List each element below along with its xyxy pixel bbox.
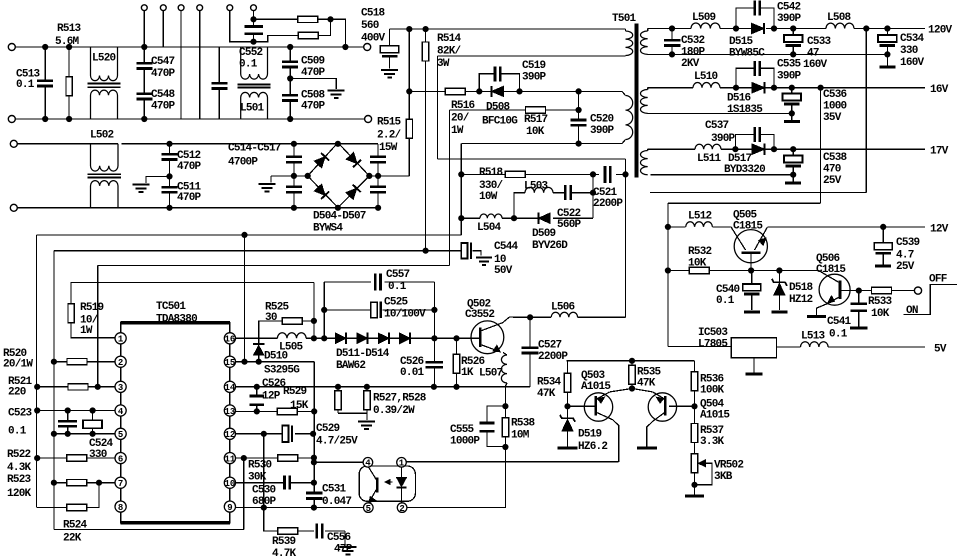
inductor L511 bbox=[695, 144, 721, 149]
svg-text:47: 47 bbox=[807, 48, 819, 60]
svg-text:C531: C531 bbox=[322, 484, 347, 496]
svg-text:D519: D519 bbox=[578, 429, 602, 441]
wire from pin B down bbox=[162, 11, 164, 47]
resistor R530 bbox=[278, 455, 298, 461]
svg-text:13: 13 bbox=[224, 407, 235, 417]
resistor R521 bbox=[68, 384, 88, 390]
svg-text:D516: D516 bbox=[727, 93, 751, 105]
junction dots bridge bbox=[291, 141, 380, 210]
label R521 220 bbox=[8, 376, 33, 399]
svg-text:0.39/2W: 0.39/2W bbox=[373, 405, 415, 417]
svg-text:C3552: C3552 bbox=[465, 309, 494, 321]
inductor L504 bbox=[480, 214, 502, 218]
terminal connector pin C bbox=[178, 5, 184, 11]
optocoupler internal LED bbox=[385, 467, 406, 503]
label C518 560 400V bbox=[361, 8, 386, 45]
label L513 bbox=[801, 331, 826, 343]
resistor R527 bbox=[335, 387, 341, 413]
svg-text:HZ12: HZ12 bbox=[789, 294, 813, 306]
IC pin 6 bbox=[115, 453, 126, 464]
IC pin 16 bbox=[224, 333, 235, 344]
svg-text:0.047: 0.047 bbox=[322, 496, 351, 508]
transformer T501 secondary 16V bbox=[641, 88, 648, 114]
wire collector riser x625.5 bbox=[625, 159, 627, 317]
svg-text:HZ6.2: HZ6.2 bbox=[578, 441, 607, 453]
wire L503 branch bbox=[514, 193, 593, 219]
svg-text:11: 11 bbox=[224, 455, 235, 465]
capacitor C556 bbox=[316, 523, 319, 538]
wire bus y234.9 bbox=[36, 235, 461, 508]
capacitor C520 bbox=[571, 91, 587, 143]
svg-text:C538: C538 bbox=[823, 152, 848, 164]
svg-text:R514: R514 bbox=[437, 33, 462, 45]
junction dots rail91 bbox=[407, 89, 582, 94]
wire from pin D down bbox=[199, 11, 201, 119]
resistor R515 bbox=[406, 29, 412, 176]
svg-text:8: 8 bbox=[118, 503, 123, 513]
resistor R538 bbox=[502, 406, 508, 447]
IC pin 7 bbox=[115, 477, 126, 488]
wire pin4 line bbox=[37, 410, 115, 412]
label C519 390P bbox=[522, 60, 547, 84]
wire pin4 to x314 bbox=[314, 461, 363, 463]
label D518 HZ12 bbox=[789, 282, 814, 306]
svg-text:5: 5 bbox=[366, 504, 371, 514]
svg-text:4.3K: 4.3K bbox=[7, 462, 32, 474]
svg-text:390P: 390P bbox=[590, 125, 615, 137]
label L509 bbox=[692, 12, 716, 24]
svg-text:OFF: OFF bbox=[929, 274, 947, 286]
label R532 10K bbox=[688, 246, 712, 270]
transformer T501 core bbox=[635, 24, 638, 177]
label C548 470P bbox=[151, 89, 176, 113]
wire from pin C down bbox=[180, 11, 182, 119]
wire from pin A down bbox=[143, 11, 145, 47]
label C523 0.1 bbox=[8, 408, 33, 438]
svg-text:4.7: 4.7 bbox=[896, 250, 914, 262]
ground under Q504 bbox=[637, 447, 657, 450]
inductor L520 bbox=[87, 47, 120, 119]
wire 12V rail bbox=[768, 226, 926, 228]
wire 17V return y174.7 bbox=[651, 174, 794, 176]
diode D505 (bridge top-right) bbox=[346, 153, 357, 164]
terminal connector pin D bbox=[197, 5, 203, 11]
svg-text:17V: 17V bbox=[930, 146, 949, 158]
terminal standby switch bbox=[914, 287, 921, 294]
capacitor C516/C517 (right pair) bbox=[370, 144, 386, 208]
wire 16V return y113.4 bbox=[648, 112, 792, 114]
junction dot pin4 wire bbox=[311, 460, 316, 465]
diode D512 bbox=[357, 333, 368, 343]
capacitor C527 bbox=[522, 317, 539, 387]
svg-text:C518: C518 bbox=[361, 8, 386, 20]
label D519 HZ6.2 bbox=[578, 429, 607, 454]
label D517 BYD3320 bbox=[724, 153, 765, 176]
label R525 30 bbox=[265, 302, 290, 325]
capacitor C540 bbox=[743, 271, 761, 312]
resistor R534 bbox=[564, 361, 570, 407]
svg-text:C555: C555 bbox=[450, 424, 475, 436]
wire y192.6 rail bbox=[650, 192, 866, 194]
capacitor C541 bbox=[850, 291, 868, 328]
svg-text:C524: C524 bbox=[89, 438, 114, 450]
capacitor C537 bbox=[735, 127, 774, 149]
label L512 bbox=[688, 211, 712, 223]
wire 16V rail bbox=[648, 87, 925, 89]
terminal AC line input 1 bbox=[8, 44, 15, 51]
svg-text:C539: C539 bbox=[896, 237, 920, 249]
svg-text:1000P: 1000P bbox=[450, 436, 480, 448]
wire R519 top riser x313.9 bbox=[313, 282, 315, 338]
svg-text:12V: 12V bbox=[930, 224, 949, 236]
junction dots C520 bbox=[576, 107, 581, 146]
IC pin 5 bbox=[115, 428, 126, 439]
diode D513 bbox=[378, 333, 389, 343]
svg-text:L509: L509 bbox=[692, 12, 716, 24]
IC pin 8 bbox=[115, 501, 126, 512]
label R529 15K bbox=[283, 386, 309, 412]
diode D504 (bridge top-left) bbox=[314, 157, 325, 168]
IC pin 12 bbox=[224, 428, 235, 439]
svg-text:35V: 35V bbox=[823, 112, 842, 124]
label R538 10M bbox=[511, 418, 536, 442]
svg-text:2200P: 2200P bbox=[593, 198, 623, 210]
svg-text:D515: D515 bbox=[729, 36, 754, 48]
capacitor C529 bbox=[282, 426, 288, 443]
IC pin 14 bbox=[224, 381, 235, 392]
svg-text:BAW62: BAW62 bbox=[336, 360, 365, 372]
svg-text:L507: L507 bbox=[479, 368, 503, 380]
wire pin3 line bbox=[37, 386, 115, 388]
svg-text:C1815: C1815 bbox=[733, 221, 763, 233]
diode D514 bbox=[400, 333, 411, 343]
diode D510 bbox=[253, 338, 264, 361]
IC503 L7805 body bbox=[731, 338, 776, 358]
terminal connector pin A bbox=[141, 5, 147, 11]
svg-text:470P: 470P bbox=[177, 192, 202, 204]
capacitor C513 bbox=[37, 47, 53, 119]
label C540 0.1 bbox=[716, 284, 740, 307]
label 12V bbox=[930, 224, 949, 236]
resistor R523 bbox=[67, 480, 87, 486]
label R514 82K/3W bbox=[437, 33, 462, 70]
svg-text:D518: D518 bbox=[789, 282, 814, 294]
label R537 3.3K bbox=[700, 425, 725, 448]
label L511 bbox=[697, 153, 722, 165]
label 120V bbox=[928, 25, 953, 37]
wire lower AC top rail bbox=[17, 144, 118, 164]
junction dots mid column bbox=[241, 431, 316, 510]
wire 120V return y54.4 bbox=[648, 53, 888, 55]
junction dots R538 bbox=[503, 404, 508, 450]
wire snubber rail y158.9 bbox=[438, 158, 626, 160]
ground near bridge bbox=[259, 183, 276, 185]
ground under VR502 bbox=[685, 495, 704, 498]
capacitor C531 bbox=[306, 488, 322, 508]
junction dots clamp bbox=[459, 172, 628, 221]
svg-text:160V: 160V bbox=[900, 57, 925, 69]
label R536 100K bbox=[700, 374, 725, 397]
svg-text:L511: L511 bbox=[697, 153, 722, 165]
label L503 bbox=[524, 181, 549, 193]
capacitor C511 bbox=[162, 176, 178, 207]
svg-text:470P: 470P bbox=[301, 67, 326, 79]
svg-text:C557: C557 bbox=[386, 269, 410, 281]
terminal DC link 1 bbox=[364, 44, 371, 51]
svg-text:R532: R532 bbox=[688, 246, 712, 258]
optocoupler internal phototransistor bbox=[369, 467, 378, 503]
inductor L502 bbox=[87, 144, 121, 208]
resistor R513 bbox=[66, 47, 72, 119]
label R515 2.2/15W bbox=[377, 117, 402, 155]
label C512 470P bbox=[177, 150, 202, 173]
label D509 BYV26D bbox=[532, 228, 568, 252]
junction dot collector bbox=[528, 315, 533, 320]
svg-text:R539: R539 bbox=[272, 536, 296, 548]
svg-text:C542: C542 bbox=[777, 2, 801, 14]
diode D516 bbox=[752, 83, 765, 93]
svg-text:1W: 1W bbox=[80, 325, 93, 337]
svg-text:L504: L504 bbox=[477, 222, 502, 234]
svg-text:1K: 1K bbox=[461, 367, 474, 379]
capacitor C536 bbox=[783, 88, 802, 122]
IC pin 9 bbox=[224, 501, 235, 512]
svg-text:R519: R519 bbox=[80, 302, 104, 314]
wire AC bottom rail bbox=[15, 118, 364, 120]
svg-text:15K: 15K bbox=[290, 400, 309, 412]
wire pin9 line bbox=[236, 507, 363, 509]
label OFF bbox=[929, 274, 947, 286]
wire bridge left node to ground bbox=[271, 176, 308, 183]
wire pin10 line bbox=[236, 482, 315, 484]
label C521 2200P bbox=[593, 187, 623, 210]
transformer T501 aux winding bbox=[622, 91, 633, 143]
IC pin 13 bbox=[224, 405, 235, 416]
IC pin 3 bbox=[115, 381, 126, 392]
svg-text:0.1: 0.1 bbox=[239, 59, 258, 71]
svg-text:L510: L510 bbox=[694, 71, 718, 83]
label 5V bbox=[934, 344, 947, 356]
label C556 47P bbox=[327, 532, 353, 556]
junction dots pin13/14 bbox=[254, 384, 317, 414]
svg-text:30: 30 bbox=[265, 312, 277, 324]
wire bridge right node to R515 bbox=[369, 175, 409, 177]
ground under Q506 emitter bbox=[807, 315, 826, 318]
resistor R533 bbox=[859, 287, 915, 293]
capacitor C526a 12P bbox=[250, 387, 264, 412]
label D511-D514 BAW62 bbox=[336, 348, 390, 372]
svg-text:BYV26D: BYV26D bbox=[532, 240, 568, 252]
wire C508 mid to ground bbox=[290, 79, 336, 90]
svg-text:10K: 10K bbox=[526, 126, 545, 138]
capacitor C518 bbox=[380, 29, 399, 68]
label C524 330 bbox=[89, 438, 114, 461]
label R513 5.6M bbox=[55, 23, 82, 48]
wire rail y360.8 bbox=[567, 360, 695, 362]
svg-text:C547: C547 bbox=[151, 56, 175, 68]
label C529 4.7/25V bbox=[316, 423, 358, 448]
transistor Q502 C3552 bbox=[471, 317, 516, 354]
svg-text:D510: D510 bbox=[264, 351, 288, 363]
wire rail y386.8 bbox=[236, 353, 531, 387]
svg-text:7: 7 bbox=[118, 479, 123, 489]
zener D519 bbox=[558, 406, 578, 448]
terminal AC line input 2 bbox=[8, 116, 15, 123]
wire pin5 line bbox=[54, 433, 115, 435]
svg-text:T501: T501 bbox=[612, 13, 637, 25]
ground under C556 bbox=[340, 546, 357, 548]
svg-text:47K: 47K bbox=[637, 378, 656, 390]
svg-text:470P: 470P bbox=[301, 101, 326, 113]
svg-text:15W: 15W bbox=[379, 142, 398, 154]
IC pin 11 bbox=[224, 453, 235, 464]
svg-text:14: 14 bbox=[224, 383, 235, 393]
capacitor C534 bbox=[878, 29, 897, 68]
wire opto pin1 to Q503 collector bbox=[406, 461, 618, 463]
resistor R514 bbox=[422, 29, 428, 251]
label R524 22K bbox=[63, 520, 88, 545]
svg-text:12: 12 bbox=[224, 430, 235, 440]
label C514-C517 4700P bbox=[228, 143, 281, 169]
terminal DC link 2 bbox=[365, 116, 372, 123]
capacitor C548 bbox=[136, 69, 152, 119]
label C555 1000P bbox=[450, 424, 480, 448]
diode D506 (bridge bottom-left) bbox=[314, 184, 325, 195]
wire degauss to rail bbox=[331, 19, 346, 47]
transformer T501 primary winding bbox=[626, 29, 633, 56]
svg-text:C535: C535 bbox=[777, 59, 802, 71]
svg-text:R527,R528: R527,R528 bbox=[373, 393, 427, 405]
svg-text:16: 16 bbox=[224, 335, 235, 345]
ground near C508 bbox=[328, 89, 345, 91]
svg-text:390P: 390P bbox=[777, 71, 802, 83]
optocoupler pin 2 bbox=[397, 503, 407, 513]
svg-text:R513: R513 bbox=[57, 23, 82, 35]
label C541 0.1 bbox=[827, 316, 852, 341]
label C511 470P bbox=[177, 182, 202, 205]
wire lower AC bottom rail bbox=[17, 207, 378, 209]
inductor L508 bbox=[826, 23, 854, 28]
wire Q504 base line bbox=[669, 405, 695, 407]
wire pin16 line bbox=[236, 337, 478, 339]
IC503 ground lead bbox=[745, 358, 762, 374]
label L507 bbox=[479, 368, 503, 380]
svg-text:1S1835: 1S1835 bbox=[727, 104, 763, 116]
svg-text:9: 9 bbox=[227, 503, 232, 513]
label C526b 0.01 bbox=[400, 356, 425, 379]
ground near C544 bbox=[476, 256, 492, 258]
svg-text:R538: R538 bbox=[511, 418, 536, 430]
wire AC top rail bbox=[15, 46, 363, 48]
wire rail y143.8 to bridge top bbox=[122, 143, 338, 145]
zener D518 bbox=[771, 271, 787, 312]
svg-text:120V: 120V bbox=[928, 25, 953, 37]
capacitor C525 bbox=[324, 302, 434, 319]
svg-text:L7805: L7805 bbox=[698, 339, 728, 351]
svg-text:0.1: 0.1 bbox=[716, 295, 735, 307]
label D510 S3295G bbox=[264, 351, 300, 377]
junction dots y29 rail bbox=[407, 27, 429, 32]
label C547 470P bbox=[151, 56, 176, 80]
svg-text:22K: 22K bbox=[63, 533, 82, 545]
terminal connector pin B bbox=[160, 5, 166, 11]
svg-text:C544: C544 bbox=[494, 241, 519, 253]
inductor L512 bbox=[668, 222, 731, 227]
wire C557/C525 left riser bbox=[323, 282, 325, 338]
capacitor C514/C515 (left pair) bbox=[286, 144, 302, 208]
svg-text:L503: L503 bbox=[524, 181, 549, 193]
diode D508 bbox=[492, 86, 504, 96]
svg-text:10M: 10M bbox=[511, 430, 530, 442]
capacitor C512 bbox=[162, 144, 178, 177]
svg-text:160V: 160V bbox=[803, 59, 828, 71]
svg-text:TC501: TC501 bbox=[156, 301, 186, 313]
svg-text:L508: L508 bbox=[827, 12, 852, 24]
svg-text:R533: R533 bbox=[868, 296, 893, 308]
label C557 0.1 bbox=[386, 269, 410, 293]
junction dots error amp bbox=[565, 358, 697, 487]
label Q503 A1015 bbox=[581, 370, 611, 393]
capacitor C521 bbox=[604, 166, 607, 183]
wire pin12 line bbox=[236, 433, 315, 435]
IC pin 2 bbox=[115, 356, 126, 367]
resistor R535 bbox=[629, 361, 635, 389]
svg-text:2.2/: 2.2/ bbox=[377, 130, 402, 142]
IC pin 4 bbox=[115, 405, 126, 416]
svg-text:R518: R518 bbox=[479, 167, 504, 179]
svg-text:C532: C532 bbox=[681, 35, 705, 47]
svg-text:470P: 470P bbox=[151, 68, 176, 80]
svg-text:D504-D507: D504-D507 bbox=[313, 211, 366, 223]
resistor R524 bbox=[37, 483, 99, 511]
label T501 bbox=[612, 13, 637, 25]
svg-text:D508: D508 bbox=[486, 102, 511, 114]
label L508 bbox=[827, 12, 852, 24]
svg-text:TDA8380: TDA8380 bbox=[156, 313, 197, 325]
svg-text:C523: C523 bbox=[8, 408, 33, 420]
svg-text:50V: 50V bbox=[494, 265, 513, 277]
label C513 0.1 bbox=[16, 69, 41, 92]
label R539 4.7K bbox=[272, 536, 297, 557]
transistor Q503 A1015 bbox=[584, 389, 632, 462]
svg-text:6: 6 bbox=[118, 455, 123, 465]
label C535 390P bbox=[777, 59, 802, 83]
wire R518 line y174.4 bbox=[461, 173, 625, 175]
svg-text:C514-C517: C514-C517 bbox=[228, 143, 281, 155]
inductor L503 bbox=[525, 187, 553, 192]
svg-text:4700P: 4700P bbox=[228, 157, 258, 169]
resistor degauss bottom bbox=[254, 19, 331, 41]
svg-text:VR502: VR502 bbox=[714, 460, 743, 472]
svg-text:L512: L512 bbox=[688, 211, 712, 223]
svg-text:120K: 120K bbox=[7, 488, 32, 500]
label L504 bbox=[477, 222, 502, 234]
svg-text:L502: L502 bbox=[90, 130, 114, 142]
junction dots C552 bbox=[251, 17, 256, 45]
wire C557/C525 right riser bbox=[433, 282, 435, 338]
label D504-D507 BYWS4 bbox=[313, 211, 366, 235]
junction dot bus234 bbox=[242, 232, 247, 237]
label C538 470 25V bbox=[823, 152, 848, 187]
svg-text:10K: 10K bbox=[688, 258, 707, 270]
wire diode chain links bbox=[346, 337, 421, 339]
svg-text:10/100V: 10/100V bbox=[384, 309, 426, 321]
svg-text:R523: R523 bbox=[7, 474, 32, 486]
svg-text:15: 15 bbox=[224, 358, 235, 368]
capacitor C557 bbox=[324, 274, 434, 291]
svg-text:390P: 390P bbox=[711, 133, 736, 145]
label D516 1S1835 bbox=[727, 93, 763, 117]
